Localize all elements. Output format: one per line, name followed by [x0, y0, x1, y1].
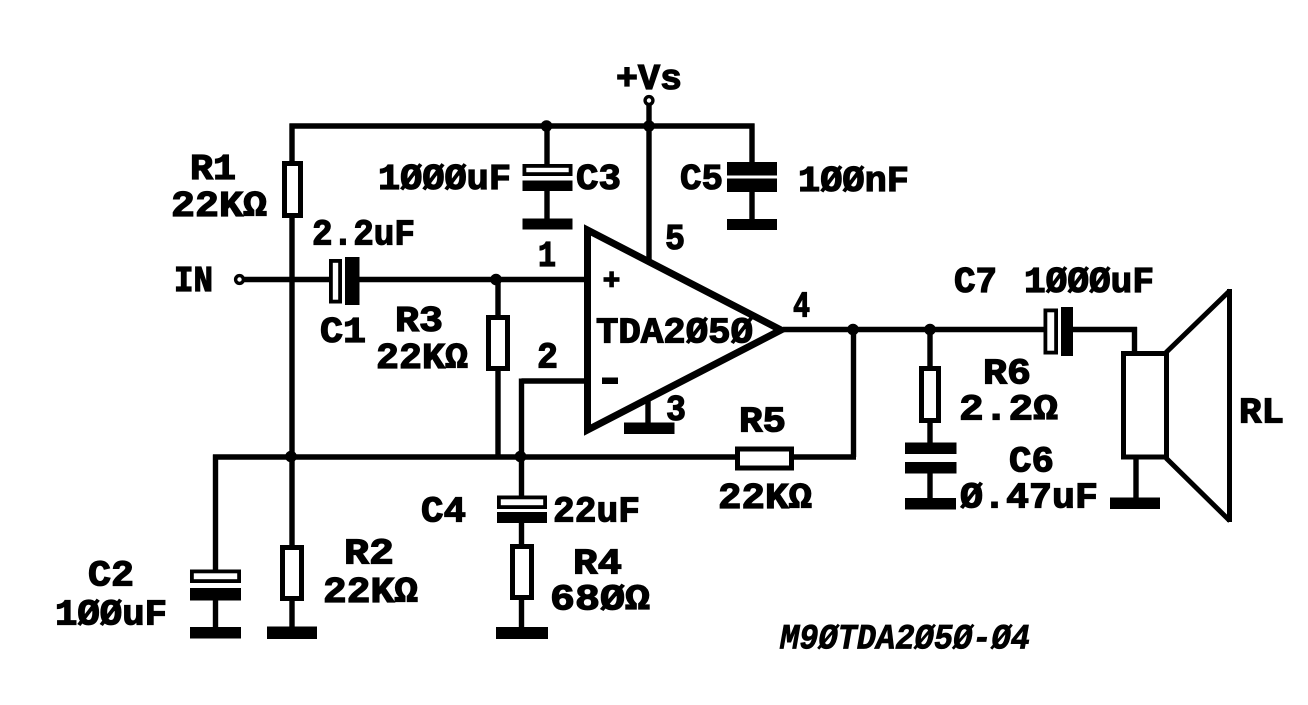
capacitor C1: [331, 257, 360, 305]
svg-text:2.2uF: 2.2uF: [312, 215, 415, 256]
wire speaker top elbow drop: [1132, 327, 1137, 353]
wire C4 top stem: [519, 457, 524, 497]
wire R3 bottom stem to lower bus: [495, 370, 500, 460]
svg-text:R6: R6: [983, 354, 1031, 395]
wire feedback riser to output: [851, 330, 856, 458]
svg-text:1ØØØuF: 1ØØØuF: [378, 159, 511, 200]
svg-text:68ØΩ: 68ØΩ: [550, 580, 650, 621]
svg-text:C2: C2: [88, 556, 134, 597]
ground R4: [496, 627, 548, 639]
node output junction at R6: [924, 324, 936, 336]
svg-text:C1: C1: [320, 312, 366, 353]
wire C2 branch drop: [213, 455, 218, 571]
capacitor C3: [523, 166, 573, 220]
svg-text:C5: C5: [680, 159, 723, 200]
ground C2: [190, 627, 241, 639]
ground op-amp pin 3: [624, 423, 675, 435]
node output junction at feedback: [847, 324, 859, 336]
node junction R3 / + input: [490, 274, 502, 286]
capacitor C4: [497, 497, 547, 523]
wire R6 top stem: [927, 330, 932, 368]
ground speaker: [1110, 498, 1160, 510]
svg-text:IN: IN: [174, 261, 213, 302]
svg-text:R1: R1: [190, 149, 236, 190]
svg-text:5: 5: [665, 219, 685, 260]
svg-text:+Vs: +Vs: [616, 59, 682, 100]
wire C5 branch drop: [749, 124, 754, 164]
wire speaker lower stem to ground: [1133, 458, 1138, 499]
resistor R2: [283, 548, 302, 599]
capacitor C6: [905, 443, 957, 474]
node lower bus junction at pin2/C4: [515, 451, 527, 463]
wire inverting input from pin 2 elbow: [522, 378, 589, 383]
capacitor C2: [190, 571, 241, 600]
wire pin 2 elbow down to lower bus: [519, 379, 524, 458]
svg-text:Ø.47uF: Ø.47uF: [960, 478, 1098, 519]
svg-text:TDA2Ø5Ø: TDA2Ø5Ø: [596, 313, 753, 354]
input terminal IN: [236, 276, 244, 284]
svg-text:22KΩ: 22KΩ: [323, 572, 418, 613]
svg-text:M9ØTDA2Ø5Ø-Ø4: M9ØTDA2Ø5Ø-Ø4: [779, 620, 1030, 660]
wire C2 lower stem: [213, 600, 218, 629]
wire C7 to speaker: [1071, 327, 1137, 332]
wire R4 lower stem to ground: [519, 599, 524, 629]
wire R5 right side to feedback riser: [792, 454, 856, 459]
svg-text:C6: C6: [1009, 442, 1054, 483]
svg-text:2: 2: [537, 338, 558, 379]
svg-text:C7: C7: [954, 262, 997, 303]
wire R3 top stem: [495, 280, 500, 317]
svg-text:C3: C3: [576, 159, 621, 200]
wire IN to C1: [243, 277, 330, 282]
ground C6: [905, 498, 956, 510]
wire R6 to C6 stem: [927, 422, 932, 445]
op-amp inverting - mark: [602, 378, 618, 385]
wire R1 bottom down to lower bus: [289, 218, 294, 460]
svg-text:4: 4: [793, 287, 810, 328]
speaker RL driver rectangle: [1124, 354, 1167, 458]
wire R2 lower stem to ground: [289, 600, 294, 629]
svg-text:1: 1: [538, 236, 556, 277]
node supply junction at C3: [541, 120, 553, 132]
wire +Vs terminal stem: [646, 105, 651, 129]
resistor R3: [489, 318, 508, 369]
capacitor C7: [1045, 307, 1073, 356]
resistor R4: [513, 547, 532, 598]
wire top supply bus: [290, 123, 755, 128]
node lower bus junction at R1/R2: [285, 451, 297, 463]
wire op-amp output to C7: [783, 327, 1045, 332]
op-amp U1 TDA2050 triangle: [588, 230, 782, 430]
ground C5: [727, 219, 777, 230]
+Vs supply terminal: [645, 97, 653, 105]
svg-text:R5: R5: [739, 402, 786, 443]
svg-text:22KΩ: 22KΩ: [171, 186, 267, 227]
wire R1 top stem from bus: [289, 124, 294, 162]
wire C1 to op-amp non-inverting input: [358, 277, 588, 282]
wire lower feedback/ground bus: [213, 454, 737, 459]
svg-text:2.2Ω: 2.2Ω: [959, 390, 1058, 431]
ground R2: [267, 627, 317, 640]
svg-text:R3: R3: [395, 301, 443, 342]
resistor R1: [285, 164, 301, 216]
wire R2 top stem: [289, 457, 294, 547]
svg-text:1ØØØuF: 1ØØØuF: [1024, 262, 1154, 303]
wire pin 3 stem to ground: [645, 399, 650, 424]
speaker RL horn: [1166, 289, 1230, 522]
svg-text:1ØØnF: 1ØØnF: [798, 161, 909, 202]
capacitor C5: [727, 162, 777, 220]
resistor R6: [922, 369, 939, 421]
svg-text:R4: R4: [573, 544, 622, 585]
svg-text:22KΩ: 22KΩ: [376, 338, 468, 379]
svg-text:RL: RL: [1239, 393, 1284, 434]
ground C3: [523, 219, 573, 230]
node supply junction at +Vs: [643, 120, 655, 132]
op-amp non-inverting + mark: [604, 271, 620, 287]
svg-text:22uF: 22uF: [553, 492, 640, 533]
svg-text:22KΩ: 22KΩ: [718, 478, 812, 519]
svg-text:1ØØuF: 1ØØuF: [55, 595, 167, 636]
wire C3 top stem from bus: [544, 126, 549, 166]
resistor R5: [738, 449, 792, 468]
wire C4 to R4 stem: [519, 522, 524, 546]
svg-text:R2: R2: [344, 534, 394, 575]
wire C6 lower stem to ground: [927, 472, 932, 499]
wire pin 5 supply line into op-amp: [646, 126, 651, 262]
svg-text:3: 3: [666, 390, 686, 431]
svg-text:C4: C4: [421, 492, 466, 533]
